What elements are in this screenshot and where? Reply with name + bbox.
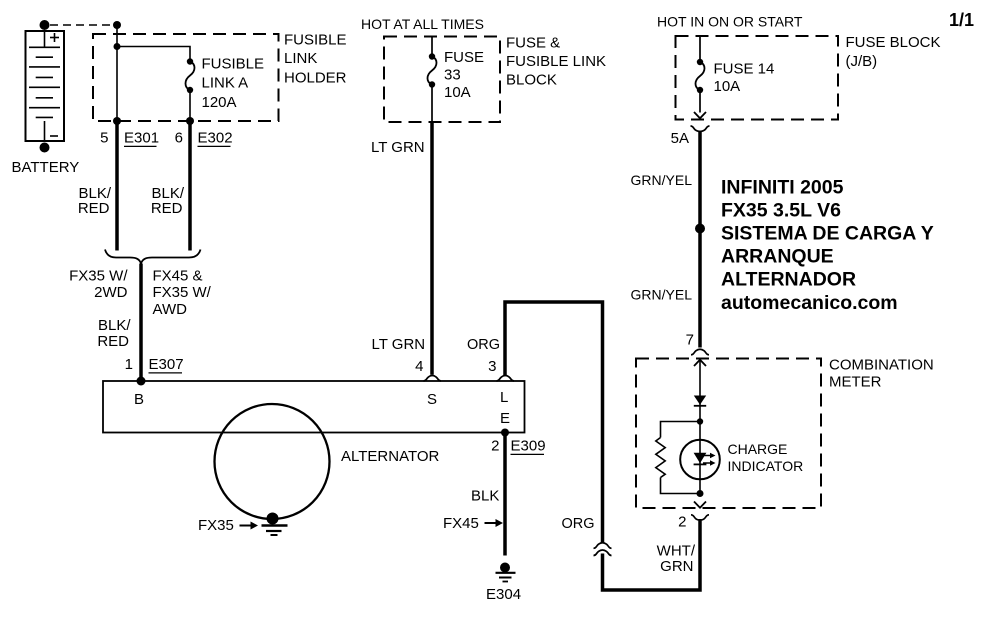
wire ORG to WHT/GRN [603,519,701,590]
charge indicator LED [680,440,720,480]
splice [695,224,705,234]
svg-text:FX45 &: FX45 & [153,268,203,285]
terminal arrow out of meter [694,502,706,508]
alternator case ground [267,513,279,525]
node 6 / E302 [186,117,194,125]
wire to alternator B, BLK/RED [139,264,143,382]
svg-text:E309: E309 [511,438,546,455]
wire branch to fusible link [117,47,190,62]
svg-text:E302: E302 [198,130,233,147]
wire E BLK [503,433,507,556]
svg-text:4: 4 [415,358,423,375]
svg-text:ALTERNATOR: ALTERNATOR [341,448,440,465]
wire GRN/YEL [698,131,702,348]
wire into holder [116,25,118,121]
wire ORG from L [505,302,603,543]
svg-text:FUSE 14: FUSE 14 [714,61,775,78]
junction lower [697,490,704,497]
fuse 33 10A [431,37,433,57]
wire inside meter [699,360,701,494]
svg-text:2: 2 [491,438,499,455]
diode D1 [694,396,706,405]
svg-text:LINK A: LINK A [202,75,249,92]
svg-text:FX35 W/: FX35 W/ [69,268,128,285]
junction [114,43,121,50]
svg-text:B: B [134,391,144,408]
fuse & fusible link block box [384,37,500,123]
node at wire end [113,21,121,29]
svg-text:10A: 10A [444,84,471,101]
svg-text:METER: METER [829,374,882,391]
wire LT GRN to S [430,122,434,375]
svg-text:RED: RED [97,333,129,350]
svg-text:GRN/YEL: GRN/YEL [631,287,693,303]
svg-text:BLK: BLK [471,488,499,505]
svg-text:2WD: 2WD [94,284,128,301]
terminal arrow out of fuse block [694,112,706,118]
brace merging wires [105,250,201,264]
wire 5 BLK/RED [115,121,119,251]
junction upper [697,418,703,424]
svg-text:ORG: ORG [467,337,500,353]
svg-text:CHARGE: CHARGE [728,441,788,457]
svg-text:FUSIBLE LINK: FUSIBLE LINK [506,53,606,70]
ground E304 [500,563,510,573]
svg-text:E301: E301 [124,130,159,147]
connector 5A [691,126,710,131]
svg-text:FUSIBLE: FUSIBLE [284,32,347,49]
svg-text:BLK/: BLK/ [98,317,131,334]
svg-text:FUSE: FUSE [444,49,484,66]
svg-text:WHT/: WHT/ [657,543,696,560]
svg-text:FX45: FX45 [443,515,479,532]
svg-text:S: S [427,391,437,408]
node 2 connector [691,515,709,520]
svg-text:LT GRN: LT GRN [372,336,426,353]
svg-text:RED: RED [151,200,183,217]
svg-text:INDICATOR: INDICATOR [728,458,804,474]
svg-text:ORG: ORG [562,516,595,532]
svg-text:10A: 10A [714,78,741,95]
svg-text:BATTERY: BATTERY [12,159,80,176]
fusible link A 120A [187,58,193,64]
svg-text:2: 2 [678,514,686,531]
alternator box [103,381,525,433]
svg-text:HOT IN ON OR START: HOT IN ON OR START [657,14,803,30]
wire 6 BLK/RED [188,121,192,251]
node 5 / E301 [113,117,121,125]
svg-text:L: L [500,389,508,406]
svg-text:automecanico.com: automecanico.com [721,292,898,314]
svg-text:E304: E304 [486,586,521,603]
node E / E309 [501,429,509,437]
svg-text:5: 5 [100,130,108,147]
svg-text:E: E [500,410,510,427]
svg-text:5A: 5A [671,130,689,147]
battery - terminal [40,143,50,153]
svg-text:FUSE &: FUSE & [506,35,560,52]
svg-text:COMBINATION: COMBINATION [829,357,934,374]
svg-text:ARRANQUE: ARRANQUE [721,246,834,268]
svg-text:LT GRN: LT GRN [371,139,425,156]
svg-text:1/1: 1/1 [949,10,974,30]
svg-text:GRN: GRN [660,558,693,575]
battery [26,31,65,141]
combination meter box [636,359,821,509]
svg-text:GRN/YEL: GRN/YEL [631,172,693,188]
svg-text:SISTEMA DE CARGA Y: SISTEMA DE CARGA Y [721,223,934,245]
svg-text:(J/B): (J/B) [846,53,878,70]
terminal arrow into meter [694,360,706,366]
svg-text:HOT AT ALL TIMES: HOT AT ALL TIMES [361,16,484,32]
resistor [656,438,665,478]
fusible link holder box [93,34,279,121]
svg-text:FUSIBLE: FUSIBLE [202,56,265,73]
svg-text:120A: 120A [202,94,237,111]
svg-text:3: 3 [488,358,496,375]
fuse block (J/B) box [676,36,839,120]
svg-text:LINK: LINK [284,50,317,67]
svg-text:ALTERNADOR: ALTERNADOR [721,269,856,291]
svg-text:FX35 W/: FX35 W/ [153,284,212,301]
svg-text:33: 33 [444,67,461,84]
svg-text:1: 1 [125,356,133,373]
svg-text:7: 7 [686,332,694,349]
resistor branch [661,422,701,438]
fuse 14 10A [699,36,701,62]
svg-text:6: 6 [175,130,183,147]
inline connector on ORG wire [594,543,612,548]
svg-text:INFINITI 2005: INFINITI 2005 [721,177,844,199]
svg-text:BLOCK: BLOCK [506,72,557,89]
svg-text:FX35 3.5L V6: FX35 3.5L V6 [721,200,841,222]
wire battery to fusible link holder (dashed) [50,24,112,26]
svg-text:FX35: FX35 [198,517,234,534]
svg-text:FUSE BLOCK: FUSE BLOCK [846,34,941,51]
svg-text:E307: E307 [149,356,184,373]
svg-text:AWD: AWD [153,301,188,318]
battery + terminal [40,20,50,30]
alternator circle [215,404,330,519]
svg-text:RED: RED [78,200,110,217]
svg-text:HOLDER: HOLDER [284,70,347,87]
